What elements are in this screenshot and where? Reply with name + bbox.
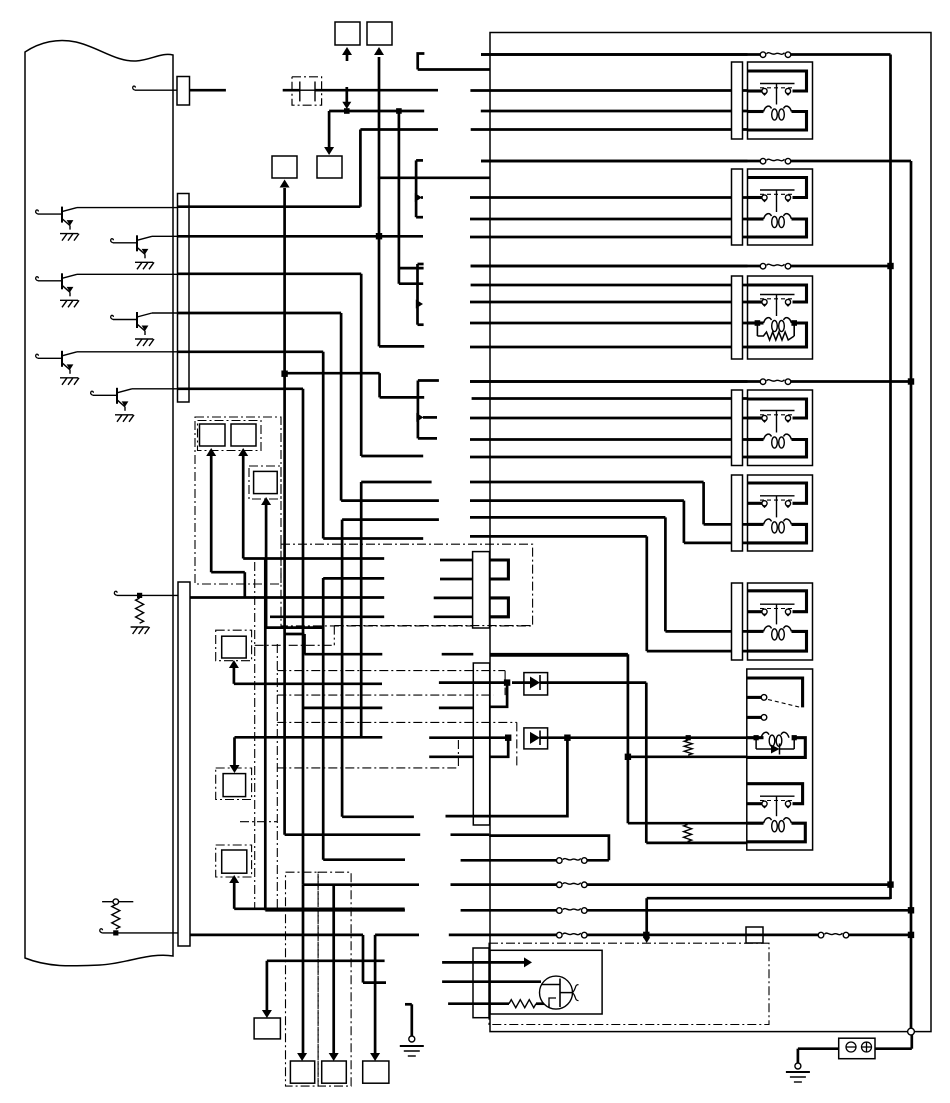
diode box D2: [524, 728, 548, 749]
junction: [504, 679, 510, 685]
junction: [908, 932, 914, 938]
wire Q6 collector to B2: [132, 388, 178, 390]
dash-dot enclosure E3 + connector box S5: [216, 768, 252, 800]
wire Q4 collector to B2: [152, 312, 178, 314]
jog on F7 wire: [645, 898, 648, 935]
vertical V5a: [359, 130, 362, 207]
bracket U4: [417, 381, 420, 439]
wire: [270, 615, 384, 618]
H-block component (dash-dot): [292, 77, 322, 105]
connector box S7: [254, 1018, 280, 1039]
wire: [540, 681, 646, 684]
battery BT1: [839, 1038, 875, 1059]
wire through fuse F8: [449, 934, 911, 937]
fuse F3b wire: [470, 380, 911, 383]
relay connector: [732, 169, 743, 245]
wire U5 coil feed (jog): [361, 481, 431, 484]
vertical V3b: [322, 578, 325, 860]
vertical V5b: [360, 274, 363, 456]
connector box CL: [272, 156, 297, 178]
wire U3 fuse feed: [399, 267, 424, 270]
ground: [131, 626, 149, 628]
wire: [470, 438, 748, 441]
wire loop: [490, 683, 507, 707]
resistor R3: [684, 740, 692, 755]
connector box S8b: [322, 1061, 347, 1083]
hook bracket U1: [418, 54, 425, 70]
wire Q3 collector to B2: [77, 273, 178, 275]
junction: [686, 735, 691, 740]
fuse F4: [562, 857, 582, 865]
wire from node to U4 top feed: [285, 372, 380, 375]
wire: [434, 615, 473, 618]
node: [137, 593, 142, 598]
relay unit U7/U8 box: [747, 669, 813, 850]
connector box S8: [290, 1061, 314, 1083]
wire: [470, 417, 748, 420]
heater element loop: [490, 598, 509, 617]
vertical to S9: [374, 935, 377, 1053]
fuse F3 wire: [471, 265, 891, 268]
wire (to fuse F5): [323, 858, 405, 861]
wire with arrow: [442, 961, 524, 964]
vertical V4b: [341, 520, 344, 817]
connector bar B5: [473, 948, 489, 1018]
bus line BUS1: [889, 55, 892, 900]
ground: [135, 338, 153, 340]
wire: [102, 901, 133, 903]
dash-dot enclosure E4 + connector box S6: [216, 845, 252, 877]
wire Q5 collector to B2: [77, 351, 178, 353]
wire U8 fuse loop feed: [283, 634, 286, 835]
arrow pin: [415, 193, 422, 202]
junction: [908, 907, 914, 913]
U7 diode: [755, 738, 757, 749]
wire to B3: [117, 594, 178, 596]
vertical V3a: [322, 352, 325, 539]
relay coil: [764, 106, 772, 111]
wire: [470, 322, 748, 325]
vertical V2: [302, 389, 305, 885]
wire U1 bottom feed: [360, 128, 438, 131]
connector bar inside CC: [473, 552, 490, 628]
wire: [471, 284, 748, 287]
vertical V0: [264, 559, 267, 911]
wire: [323, 537, 423, 540]
wire to B3: [102, 932, 178, 934]
vertical V5c: [360, 482, 363, 737]
relay coil: [764, 818, 772, 823]
junction: [908, 378, 914, 384]
heater element loop: [490, 560, 509, 579]
fuse loop in box: [489, 836, 609, 861]
thin partition line: [490, 655, 628, 657]
wire: [471, 128, 748, 131]
connector (open): [795, 1063, 801, 1069]
wire: [470, 301, 748, 304]
connector (open): [409, 1036, 415, 1042]
wire B2 pin6: [178, 387, 304, 390]
wire: [481, 110, 748, 113]
wire U3 top feed: [399, 282, 423, 285]
connector box C3: [317, 156, 342, 178]
wire down to C3: [328, 111, 331, 147]
wire to MOSFET: [442, 980, 541, 983]
vertical: [627, 654, 630, 823]
ground: [60, 299, 78, 301]
connector box S6: [222, 850, 247, 873]
wire into diode D1: [439, 681, 507, 684]
wire: [470, 196, 748, 199]
connector box S9: [363, 1061, 389, 1083]
wire: [481, 53, 748, 56]
diode box D1: [524, 673, 548, 695]
fuse F2 wire: [481, 160, 911, 163]
wire from B1: [190, 89, 226, 92]
wire v-bus from A2 down: [378, 57, 381, 346]
wire: [440, 559, 473, 562]
wire loop: [490, 738, 568, 816]
transistor Q3: [36, 277, 39, 281]
junction: [564, 735, 570, 741]
transistor Q5: [36, 354, 39, 358]
wire stub: [446, 815, 490, 818]
connector bar B2: [178, 194, 190, 403]
connector (open): [908, 1028, 915, 1035]
relay coil: [764, 519, 772, 524]
junction: [887, 263, 893, 269]
junction: [113, 930, 118, 935]
wire H-block to U1 switch (break): [315, 89, 438, 92]
dash-dot enclosure E2 + connector box S4: [216, 630, 252, 661]
wire: [470, 380, 748, 383]
junction: [281, 371, 287, 377]
feed S8b: [332, 885, 335, 1053]
wire U5/U6 jog feeds left segs: [342, 518, 439, 521]
wire to gate: [448, 1002, 509, 1005]
vertical V7: [398, 111, 401, 284]
junction: [505, 735, 511, 741]
wire: [429, 755, 473, 758]
feed wire S1: [206, 448, 216, 456]
wire U1.. jog V1 bottom: [285, 633, 305, 636]
dash-dot around diodes: [277, 670, 505, 672]
dash-dot around S3: [249, 466, 281, 499]
transistor Q1: [36, 210, 39, 214]
junction: [376, 233, 382, 239]
resistor R5: [509, 1000, 536, 1008]
wire into H-block: [283, 89, 300, 92]
wire: [440, 578, 473, 581]
bracket U3: [416, 264, 419, 325]
diode D1: [530, 677, 540, 689]
feed wire S5: [233, 737, 236, 765]
wire through fuse F7: [461, 909, 911, 912]
wire B2 pin3: [178, 272, 362, 275]
resistor R1: [136, 598, 144, 623]
dash-dot enclosure MM: [489, 943, 769, 1024]
wire arrow into A1: [346, 52, 349, 61]
wire: [266, 626, 323, 629]
wire: [470, 346, 748, 349]
wire B3 bottom to MOSFET: [190, 934, 363, 937]
wire: [470, 236, 748, 239]
wire U7 coil feed: [540, 736, 748, 739]
wire B2 pin5: [178, 350, 324, 353]
dash-dot lines below CC: [334, 625, 532, 627]
dash-dot: [240, 821, 277, 823]
arrow pin: [416, 413, 423, 422]
U8 relay internals: [747, 784, 803, 804]
relay coil: [764, 626, 772, 631]
relay coil: [761, 732, 769, 737]
ECU main unit (torn box): [25, 40, 173, 965]
fuse F1 wire: [481, 53, 891, 56]
driver box: [490, 950, 602, 1014]
wire: [470, 456, 748, 459]
wire: [243, 557, 384, 560]
wire U7 coil return: [628, 755, 748, 758]
dash-dot enclosure E1: [195, 417, 281, 584]
wire seg: [375, 934, 419, 937]
vertical bus V1 from CL: [280, 180, 290, 188]
connector box S4: [222, 636, 247, 658]
arrow pin: [416, 300, 423, 309]
arrow tap onto node: [345, 87, 348, 104]
node (open): [113, 899, 119, 905]
wire (to fuse F6): [303, 883, 419, 886]
fuse F7: [562, 907, 582, 915]
vertical V4a: [340, 313, 343, 501]
relay connector: [732, 62, 743, 139]
wire: [342, 815, 414, 818]
wire stub: [451, 833, 490, 836]
wire U5 coil jog: [470, 481, 704, 484]
wire U6 coil jog: [470, 516, 665, 519]
relay connector: [732, 390, 743, 466]
fuse F3: [766, 262, 786, 270]
connector box S5: [223, 774, 246, 797]
relay coil: [764, 434, 772, 439]
connector box A2: [367, 22, 392, 45]
ground: [135, 261, 153, 263]
fuse F3b: [766, 378, 786, 386]
connector box S2: [231, 424, 256, 446]
wire U8 coil: [628, 822, 748, 825]
wire U6 bottom jog: [470, 535, 647, 538]
wire U8 bottom: [646, 842, 747, 845]
wire: [234, 682, 382, 685]
connector box S1: [200, 424, 226, 446]
U7 coil: [747, 736, 764, 739]
junction: [643, 932, 649, 938]
wire: [439, 707, 473, 710]
wire: [323, 577, 384, 580]
relay coil: [764, 318, 772, 323]
junction: [887, 881, 893, 887]
fuse F1: [766, 51, 786, 59]
junction: [625, 754, 631, 760]
wire Q1 collector to B2: [77, 207, 178, 209]
wire B2 pin1: [178, 205, 361, 208]
feed S8: [302, 885, 305, 1053]
U7 switch: [747, 678, 803, 707]
wire: [303, 707, 382, 710]
wire: [470, 218, 748, 221]
wire: [471, 265, 748, 268]
main bus wire from B3: [190, 596, 384, 599]
coil parallel resistor: [757, 332, 794, 340]
relay connector: [732, 475, 743, 551]
wire stub: [461, 859, 490, 862]
chassis ground G1: [786, 1071, 810, 1073]
wire (to fuse F7): [265, 909, 405, 912]
junction: [396, 108, 402, 114]
dash-dot component box CC: [281, 544, 533, 626]
vertical: [645, 683, 648, 843]
ground: [115, 414, 133, 416]
wire loop: [490, 738, 509, 757]
ground: [60, 377, 78, 379]
transistor Q2: [111, 239, 114, 243]
transistor Q6: [91, 391, 94, 395]
wire U1 coil feed: [329, 110, 424, 113]
battery wires: [798, 1047, 839, 1050]
relay connector: [732, 583, 743, 660]
feed wire S3: [261, 497, 271, 505]
wire U5 bottom feed: [341, 499, 439, 502]
wire U3 bottom feed: [379, 345, 424, 348]
wire U5 bottom jog: [470, 499, 684, 502]
chassis ground: [400, 1045, 424, 1047]
wire U4 bottom feed: [361, 455, 423, 458]
feed wire S2: [238, 448, 248, 456]
inner dash-dot: [198, 421, 262, 451]
connector box A1: [335, 22, 360, 45]
wire: [470, 89, 747, 92]
wire: [481, 160, 748, 163]
wire B2 pin4: [178, 312, 342, 315]
long dash-dot channel: [254, 562, 256, 908]
junction block (outer box): [490, 33, 931, 1032]
resistor R2: [112, 905, 120, 930]
wire Q2 collector to B2: [152, 235, 178, 237]
bracket U2: [415, 160, 418, 217]
wire U2 top feed: [378, 176, 416, 179]
fuse F2: [766, 157, 786, 165]
wire: [234, 907, 405, 910]
MOSFET Q7: [540, 976, 573, 1009]
small ground with circle: [405, 1003, 412, 1006]
bus line BUS2: [910, 161, 913, 1031]
wire B2 pin2 (U2 bottom feed): [178, 235, 424, 238]
fuse F6: [562, 881, 582, 889]
wire: [434, 597, 473, 600]
ground: [60, 233, 78, 235]
wire: [489, 859, 609, 862]
fuse F9: [824, 931, 844, 939]
connector bar B1: [177, 77, 190, 106]
bottom dash-dot enclosures: [286, 872, 319, 1086]
wire: [472, 397, 748, 400]
junction node: [344, 108, 350, 114]
lower connector bar B4: [473, 663, 489, 825]
connector box S3: [254, 471, 278, 493]
wire into diode D2: [429, 736, 508, 739]
wire stub: [442, 653, 474, 656]
wire: [235, 736, 383, 739]
wire through fuse F6: [451, 883, 891, 886]
relay coil: [764, 214, 772, 219]
fuse F8: [562, 931, 582, 939]
diode D2: [530, 732, 540, 744]
connector box on wire: [746, 927, 763, 943]
arrow into A2: [374, 47, 384, 55]
wire: [305, 653, 383, 656]
wire to S7: [267, 959, 385, 962]
wire U1 top feed: [418, 68, 490, 71]
connector bar B3: [178, 582, 190, 946]
relay connector: [732, 276, 743, 359]
wire from box edge, down to U8 coil: [490, 653, 628, 656]
transistor Q4: [111, 315, 114, 319]
